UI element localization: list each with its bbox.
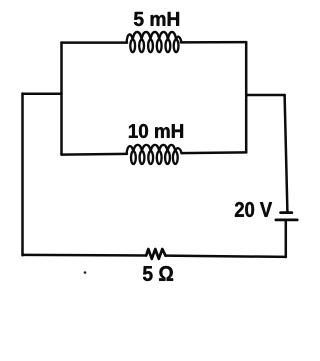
- wire outer bottom right segment: [165, 256, 286, 257]
- stray dot artifact: [84, 271, 87, 274]
- wire inner-left vertical: [60, 43, 63, 155]
- label 5 ohm: [143, 266, 173, 281]
- wire outer-left vertical: [21, 94, 24, 256]
- label 20 V: [235, 202, 272, 217]
- resistor R1 5 ohm zigzag: [146, 249, 165, 259]
- wire inner bottom-left horizontal: [62, 153, 128, 156]
- battery V1 short plate (top terminal): [281, 211, 292, 214]
- inductor L1 5 mH coil: [127, 32, 182, 52]
- wire inner top-left horizontal: [62, 41, 128, 44]
- wire outer-right vertical lower: [285, 221, 288, 257]
- wire right connector horizontal: [246, 94, 284, 97]
- battery V1 long plate (bottom terminal): [276, 218, 297, 221]
- wire inner-right vertical: [245, 42, 248, 152]
- label 10 mH: [129, 124, 183, 138]
- wire left connector horizontal: [23, 92, 62, 95]
- wire inner bottom-right horizontal: [182, 151, 247, 154]
- label 5 mH: [134, 12, 179, 26]
- inductor L2 10 mH coil: [127, 145, 182, 164]
- wire outer bottom left segment: [23, 254, 147, 257]
- wire outer-right vertical upper: [285, 95, 288, 211]
- wire inner top-right horizontal: [181, 41, 246, 44]
